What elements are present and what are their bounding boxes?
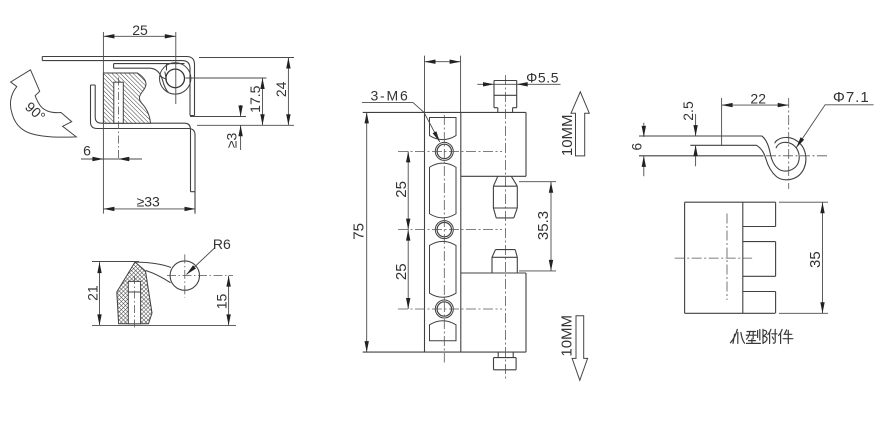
char xing bbox=[746, 330, 760, 344]
slot D bbox=[430, 321, 457, 341]
dimension 25 upper bbox=[407, 151, 409, 309]
adjustment arrow down 10MM bbox=[572, 316, 588, 381]
dimension 35.3 bbox=[519, 182, 556, 271]
dimension 75 bbox=[366, 112, 368, 352]
hole 3 bbox=[435, 300, 453, 318]
hole centerline 3 bbox=[398, 308, 502, 310]
knuckle plate lower bbox=[461, 273, 526, 352]
stud centerline vertical bbox=[504, 75, 506, 380]
svg-text:75: 75 bbox=[351, 223, 368, 240]
svg-text:17.5: 17.5 bbox=[247, 85, 263, 112]
dimension 2.5 bbox=[695, 114, 697, 166]
screw slot in hinge body bbox=[114, 82, 124, 123]
extension line left datum bbox=[102, 32, 104, 214]
hole 2 bbox=[435, 221, 453, 239]
svg-text:Φ5.5: Φ5.5 bbox=[526, 69, 559, 85]
claw body outline bbox=[685, 202, 776, 313]
stud 1 middle bbox=[493, 176, 517, 218]
hook strip middle line curling into outer loop bbox=[690, 137, 806, 179]
claw tooth 2 bbox=[743, 242, 776, 277]
dimension 25 lower bbox=[406, 230, 410, 309]
svg-text:10MM: 10MM bbox=[559, 114, 576, 156]
extension line pin vertical bbox=[175, 32, 177, 104]
dimension 15 bbox=[228, 276, 230, 326]
frame profile sheet bbox=[42, 57, 194, 116]
hook strip top line curling into inner hole phi7.1 bbox=[639, 136, 799, 171]
extension line frame bottom right bbox=[190, 116, 246, 118]
svg-text:15: 15 bbox=[213, 294, 229, 310]
dimension 25 top bbox=[103, 35, 175, 37]
svg-text:3-M6: 3-M6 bbox=[370, 87, 409, 103]
rotation arrow 90 degrees bbox=[10, 70, 76, 137]
dimension 35 bbox=[779, 202, 828, 313]
hinge body hatched section bbox=[103, 73, 150, 123]
claw tooth 1 bbox=[743, 202, 776, 226]
slot centerline bbox=[118, 78, 120, 160]
svg-text:≥33: ≥33 bbox=[137, 194, 160, 210]
svg-text:6: 6 bbox=[83, 142, 91, 158]
hook horizontal centerline bbox=[766, 155, 828, 157]
svg-text:6: 6 bbox=[628, 143, 644, 151]
door panel sheet bbox=[91, 85, 196, 214]
dimension 22 bbox=[721, 98, 723, 145]
dimension 6 bbox=[643, 123, 645, 177]
circle crosshair bbox=[167, 275, 233, 277]
stud 2 middle bbox=[492, 250, 517, 273]
hole centerline 2 bbox=[398, 229, 502, 231]
dimension >=33 bbox=[103, 208, 195, 210]
char fu bbox=[763, 329, 777, 343]
svg-text:35: 35 bbox=[807, 251, 824, 268]
svg-text:25: 25 bbox=[393, 263, 410, 280]
leaf curve bottom bbox=[146, 271, 171, 283]
svg-text:22: 22 bbox=[750, 91, 766, 107]
dimension >=3 bbox=[240, 105, 242, 150]
char zhua bbox=[730, 329, 744, 343]
slot B bbox=[430, 163, 457, 218]
svg-text:≥3: ≥3 bbox=[224, 133, 240, 149]
claw horizontal centerline bbox=[675, 257, 752, 259]
svg-text:2.5: 2.5 bbox=[680, 101, 696, 121]
svg-text:10MM: 10MM bbox=[559, 315, 576, 357]
hinge leaf outline bbox=[363, 112, 526, 352]
top stud phi5.5 bbox=[494, 81, 517, 113]
hole 1 bbox=[435, 142, 453, 160]
hole centerline 1 bbox=[398, 150, 502, 152]
hinge pin circle bbox=[166, 69, 185, 88]
top width dimension bbox=[425, 61, 461, 63]
slot A bbox=[430, 118, 457, 140]
hook strip bottom line bbox=[639, 155, 764, 157]
hinge leaf strip bbox=[114, 64, 185, 93]
slot C bbox=[430, 241, 457, 297]
top width extension lines bbox=[425, 56, 461, 113]
wedge hatched section bbox=[117, 262, 152, 324]
column centerline vertical bbox=[443, 115, 445, 363]
hook vertical centerline bbox=[788, 98, 790, 189]
dimension 6 bbox=[81, 158, 142, 160]
claw vertical centerline bbox=[726, 214, 728, 301]
dimension 17.5 bbox=[262, 78, 264, 126]
extension line panel surface right bbox=[197, 124, 294, 126]
svg-text:35.3: 35.3 bbox=[535, 211, 552, 240]
char jian bbox=[779, 329, 793, 343]
claw tooth 3 bbox=[743, 292, 776, 314]
dimension 24 bbox=[287, 58, 289, 126]
caption claw-type accessory (CJK strokes) bbox=[730, 329, 792, 343]
pin circle R6 bbox=[170, 261, 199, 290]
leaf notch near pin bbox=[159, 72, 166, 80]
svg-text:21: 21 bbox=[84, 285, 100, 301]
wedge slot bbox=[128, 281, 140, 323]
knuckle plate upper bbox=[461, 112, 526, 176]
svg-text:R6: R6 bbox=[213, 236, 231, 252]
svg-text:24: 24 bbox=[273, 81, 289, 97]
svg-text:Φ7.1: Φ7.1 bbox=[833, 89, 870, 106]
svg-text:25: 25 bbox=[132, 22, 148, 38]
extension line pin center horizontal bbox=[186, 77, 267, 79]
hinge barrel outer circle bbox=[160, 63, 191, 94]
svg-text:25: 25 bbox=[393, 181, 410, 198]
extension line top right bbox=[199, 57, 294, 59]
leaf curve top bbox=[135, 262, 171, 268]
slot divider bbox=[128, 291, 140, 293]
adjustment arrow up 10MM bbox=[571, 92, 589, 156]
dimension 21 bbox=[92, 262, 236, 326]
bottom stud bbox=[494, 352, 517, 370]
svg-text:90°: 90° bbox=[22, 99, 48, 125]
slot centerline bbox=[133, 276, 135, 330]
